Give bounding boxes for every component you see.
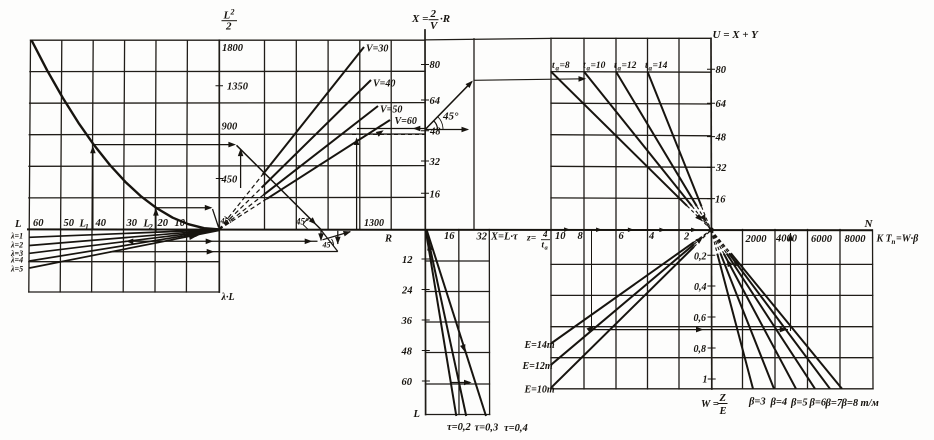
svg-text:W =: W = — [701, 399, 719, 410]
long horiz arrow line 1 below axis — [125, 240, 318, 242]
ah into pivot2 from ta8 — [695, 214, 704, 223]
svg-text:V=60: V=60 — [395, 116, 417, 127]
svg-text:Z: Z — [719, 393, 727, 404]
beta=5 line dashed — [711, 230, 724, 254]
L2/2 axis (shared vertical at x=219) — [218, 40, 220, 292]
svg-text:0,8: 0,8 — [694, 344, 707, 355]
ah into pivot2 from E12 — [695, 235, 704, 244]
svg-text:β=8: β=8 — [841, 398, 859, 409]
vert arrow x=240.5 (450 example) — [240, 150, 242, 188]
svg-text:16: 16 — [430, 190, 441, 201]
45 deg mirror line to R axis junction — [237, 145, 322, 229]
ah right y=207.7 — [205, 205, 213, 211]
tau line labels — [447, 422, 528, 434]
bottom axis strip labels — [384, 229, 866, 252]
ah left on line1 — [126, 239, 134, 245]
panel C: horizontal arrow V60 to X axis — [357, 128, 425, 130]
tau panel horizontals — [425, 261, 490, 415]
lambda line 2 — [30, 230, 220, 246]
ah right tau 60 row — [464, 380, 472, 386]
svg-text:τ=0,2: τ=0,2 — [447, 422, 472, 433]
beta=8 line — [731, 253, 842, 388]
beta=6 line dashed — [711, 230, 727, 254]
beta=3 line dashed — [711, 230, 717, 254]
panel C verticals (V panel) — [265, 40, 392, 229]
tau axis value labels — [401, 255, 420, 420]
central box top line to ta panel — [474, 79, 584, 81]
svg-text:4: 4 — [542, 229, 548, 239]
svg-text:1300: 1300 — [364, 218, 384, 229]
central box: horizontal arrow at 48 — [425, 129, 467, 131]
svg-text:10: 10 — [175, 218, 186, 229]
svg-text:U = X + Y: U = X + Y — [713, 29, 760, 41]
svg-text:E=14m: E=14m — [524, 340, 555, 351]
svg-text:E=10m: E=10m — [524, 385, 555, 396]
beta=7 line — [729, 253, 830, 388]
arc at junction2 above axis — [303, 218, 310, 229]
junction2: vertical drop — [320, 230, 322, 240]
ticks on L2/2 axis — [216, 86, 224, 179]
tau=0.2 line — [426, 230, 457, 416]
junction2: diagonal to line2 end — [321, 231, 337, 252]
ah up R=1300 — [354, 137, 360, 145]
U axis value labels — [715, 65, 728, 206]
ah right W arrow end — [780, 327, 788, 333]
svg-text:32: 32 — [715, 163, 727, 174]
lambda labels — [10, 232, 23, 274]
ta=10 line — [584, 72, 692, 207]
ah on V60 line — [376, 128, 385, 137]
svg-text:0,2: 0,2 — [694, 252, 707, 263]
tau=0.3 line — [426, 230, 466, 416]
svg-text:60: 60 — [33, 218, 44, 229]
E=10m line — [551, 247, 694, 388]
V=30 line dashed part — [219, 175, 263, 230]
lambda line 4 — [30, 230, 220, 261]
svg-text:X =: X = — [411, 13, 428, 25]
ah 45 up central box — [466, 79, 475, 88]
svg-text:80: 80 — [716, 65, 727, 76]
K Tn = W b label — [876, 234, 920, 247]
beta=8 line dashed — [711, 230, 731, 254]
beta=3 line — [717, 254, 753, 389]
svg-text:64: 64 — [716, 99, 727, 110]
svg-text:n: n — [892, 238, 896, 246]
svg-text:40: 40 — [95, 218, 107, 229]
z+W panels horizontals — [551, 264, 873, 388]
arc central box small — [438, 117, 443, 130]
svg-text:=12: =12 — [622, 61, 637, 71]
svg-text:4: 4 — [648, 231, 654, 242]
ah up L2 arrow — [153, 208, 159, 216]
ah right on line1 mid — [206, 239, 214, 245]
ta panel verticals — [584, 38, 679, 229]
svg-text:32: 32 — [429, 157, 441, 168]
W = Z/E label — [701, 393, 727, 417]
svg-text:β=5: β=5 — [790, 398, 808, 409]
vert arrow at L2=20 — [155, 210, 157, 233]
svg-text:45°: 45° — [322, 241, 335, 250]
svg-text:X=L·τ: X=L·τ — [490, 232, 518, 243]
ta=8 line — [551, 72, 687, 206]
panel G: vertical arrow up to K axis — [790, 233, 792, 331]
pivot2 ink blob — [709, 227, 714, 232]
ah down junction2 — [318, 233, 324, 241]
tau=0.4 line — [427, 230, 486, 416]
ah on tau02 up — [426, 242, 433, 250]
panel B horizontals (lambda panel) — [29, 262, 220, 292]
ah up-right to axis — [343, 229, 352, 237]
U / W axis vertical x=711 — [710, 38, 713, 389]
beta=5 line — [724, 254, 796, 389]
title L^2/2 — [223, 8, 235, 33]
arc at pivot1 — [225, 217, 232, 224]
svg-text:8000: 8000 — [845, 234, 867, 245]
ah right on line1 end — [305, 239, 313, 245]
ah right on line2 mid — [207, 249, 215, 255]
panel A+B verticals (L grid, left) — [29, 40, 188, 292]
lambda line 5 — [30, 230, 220, 268]
svg-text:E=12m: E=12m — [522, 361, 553, 372]
junction2: up-right arrow to axis — [323, 232, 351, 240]
svg-text:2: 2 — [225, 21, 232, 33]
ta=14 line — [648, 72, 702, 207]
long horiz arrow line 2 below axis — [110, 251, 338, 253]
svg-text:20: 20 — [157, 218, 169, 229]
svg-text:β=4: β=4 — [770, 397, 788, 408]
svg-text:N: N — [864, 218, 874, 230]
svg-text:50: 50 — [64, 218, 75, 229]
svg-text:τ=0,3: τ=0,3 — [475, 423, 499, 434]
junction2: vertical at x=337.8 — [337, 231, 339, 244]
svg-text:E: E — [719, 406, 727, 417]
horiz arrow y=207.7 to pivot — [156, 207, 211, 209]
ah right W arrow mid — [696, 327, 704, 333]
svg-text:β=3: β=3 — [748, 397, 766, 408]
svg-text:45°: 45° — [442, 111, 459, 123]
svg-text:2: 2 — [148, 222, 153, 231]
beta=4 line — [721, 254, 775, 389]
ticks on W axis — [707, 255, 715, 379]
V=50 line dashed part — [219, 195, 264, 230]
vert arrow at L1=40 up to curve — [92, 148, 94, 230]
short connector into pivot1 — [213, 209, 219, 228]
E=14m dashed — [694, 230, 711, 242]
svg-text:64: 64 — [430, 96, 441, 107]
ta=12 line — [616, 72, 697, 207]
V=60 line — [267, 120, 390, 199]
main horizontal axis — [27, 228, 873, 231]
svg-text:48: 48 — [429, 127, 441, 138]
svg-text:80: 80 — [430, 60, 441, 71]
svg-text:48: 48 — [401, 347, 413, 358]
beta=7 line dashed — [711, 230, 729, 254]
V=60 line dashed part — [219, 199, 267, 230]
E=12m dashed — [694, 230, 711, 244]
tau panel: horizontal arrow at 60 row — [451, 382, 470, 384]
panel F-G: long horizontal arrow at W=0.65 — [588, 329, 788, 331]
ta panel horizontals — [551, 38, 711, 198]
axis arrow ticks panel F — [564, 227, 570, 231]
arc at junction2 below axis — [332, 239, 334, 246]
svg-text:λ·L: λ·L — [221, 292, 235, 303]
central box: 45 deg arrow up — [425, 82, 472, 130]
horiz arrow from curve to 45 deg line — [94, 144, 235, 146]
ticks on X axis (tau values, below) — [422, 259, 430, 381]
ta labels — [552, 61, 668, 73]
beta labels — [748, 397, 879, 410]
svg-text:2: 2 — [430, 8, 437, 20]
svg-text:·R: ·R — [440, 13, 450, 25]
ah tiny on E12 line — [586, 324, 595, 333]
svg-text:900: 900 — [222, 122, 239, 133]
svg-text:2: 2 — [683, 232, 690, 243]
svg-text:10: 10 — [555, 231, 566, 242]
X axis value labels — [429, 60, 442, 201]
svg-text:=8: =8 — [560, 61, 570, 71]
V=40 line dashed part — [219, 188, 262, 230]
svg-text:45°: 45° — [220, 217, 233, 226]
ah right to ta10 — [578, 76, 586, 82]
V=30 line — [263, 47, 365, 175]
ah left near X axis — [413, 126, 421, 132]
svg-text:2000: 2000 — [745, 234, 768, 245]
ah lambda3 — [195, 231, 203, 237]
svg-text:45°: 45° — [295, 217, 309, 227]
ah up curve arrow — [90, 146, 96, 154]
tau panel verticals — [459, 230, 490, 415]
svg-text:т/м: т/м — [861, 398, 879, 409]
panel A horizontals — [29, 40, 425, 198]
lambda line 1 — [30, 230, 220, 238]
svg-text:1800: 1800 — [222, 43, 244, 54]
svg-text:24: 24 — [401, 286, 413, 297]
svg-text:16: 16 — [444, 231, 455, 242]
ta=10 dashed — [692, 206, 711, 230]
ah into pivot2 on beta5 — [724, 258, 733, 267]
svg-text:16: 16 — [715, 195, 726, 206]
central box vertical x=474 — [473, 39, 475, 230]
svg-text:L: L — [14, 219, 21, 230]
svg-text:1: 1 — [85, 222, 89, 231]
svg-text:λ=1: λ=1 — [10, 232, 23, 241]
E labels — [522, 340, 555, 396]
svg-text:=10: =10 — [591, 61, 606, 71]
ah up K axis arrow — [788, 233, 794, 241]
V=40 line — [262, 80, 371, 188]
svg-text:30: 30 — [126, 218, 138, 229]
ah into pivot2 from ta12 — [700, 214, 709, 223]
W panel G verticals — [743, 230, 874, 389]
beta=4 line dashed — [711, 230, 721, 254]
ta=12 dashed — [697, 206, 711, 230]
svg-text:6: 6 — [619, 231, 625, 242]
svg-text:450: 450 — [221, 175, 239, 186]
svg-text:λ=5: λ=5 — [10, 265, 23, 274]
ta=14 dashed — [702, 206, 712, 230]
svg-text:6000: 6000 — [811, 234, 833, 245]
svg-text:L: L — [413, 409, 420, 420]
L2/2 axis values — [221, 43, 249, 186]
ticks on X axis (right side values) — [421, 65, 429, 194]
svg-text:R: R — [384, 234, 392, 245]
svg-text:1350: 1350 — [227, 82, 249, 93]
svg-text:2: 2 — [230, 8, 235, 17]
ah up 450 arrow — [238, 149, 244, 157]
central box: angle arc — [434, 121, 438, 130]
top edge over central box — [425, 38, 551, 40]
ah into pivot2 on beta7 — [731, 257, 740, 266]
E=14m line — [551, 242, 694, 343]
ah lambda2 — [200, 228, 208, 234]
svg-text:V=30: V=30 — [366, 44, 388, 55]
svg-text:z=: z= — [526, 234, 536, 244]
ah on tau04 line — [460, 344, 468, 353]
ta/z panel left edge x=551 — [550, 38, 552, 389]
panel F: vertical line at z example — [591, 231, 593, 330]
L axis labels — [14, 218, 186, 231]
V=50 line — [264, 106, 379, 195]
svg-text:1: 1 — [703, 375, 708, 386]
svg-text:=14: =14 — [653, 61, 668, 71]
svg-text:0,6: 0,6 — [694, 313, 707, 324]
svg-text:τ=0,4: τ=0,4 — [504, 423, 528, 434]
ah right central box — [462, 127, 470, 133]
svg-text:48: 48 — [715, 133, 727, 144]
E=12m line — [551, 244, 694, 364]
svg-text:β=7: β=7 — [825, 398, 843, 409]
svg-text:V=50: V=50 — [380, 105, 402, 116]
ah right at 45 line — [228, 142, 236, 148]
svg-text:32: 32 — [476, 232, 488, 243]
title X=2/V R — [411, 8, 450, 32]
V labels — [366, 44, 417, 128]
E=10m dashed — [694, 230, 711, 247]
svg-text:=W·β: =W·β — [896, 234, 919, 245]
svg-text:8: 8 — [578, 231, 584, 242]
ah lambda4 — [189, 233, 197, 240]
z panel F verticals — [584, 230, 679, 390]
panel C: dashed 48 row hint — [352, 134, 425, 136]
lambda line 3 — [30, 230, 220, 253]
svg-text:V=40: V=40 — [373, 79, 395, 90]
svg-text:0,4: 0,4 — [694, 282, 707, 293]
X axis vertical — [424, 30, 427, 415]
svg-text:4000: 4000 — [775, 234, 798, 245]
ticks on U axis — [707, 69, 715, 198]
svg-text:12: 12 — [402, 255, 413, 266]
ah on 45 mirror near axis — [309, 217, 318, 226]
svg-text:36: 36 — [401, 316, 413, 327]
svg-text:K T: K T — [876, 234, 893, 245]
parabola curve L^2/2 — [31, 40, 219, 230]
svg-text:λ=4: λ=4 — [10, 256, 23, 265]
svg-text:β=6: β=6 — [809, 398, 827, 409]
panel C: vertical arrow at R=1300 — [356, 139, 358, 229]
beta=6 line — [727, 254, 815, 389]
ah down x=337.8 — [335, 237, 341, 245]
svg-text:60: 60 — [402, 377, 413, 388]
W axis value labels — [694, 252, 708, 386]
